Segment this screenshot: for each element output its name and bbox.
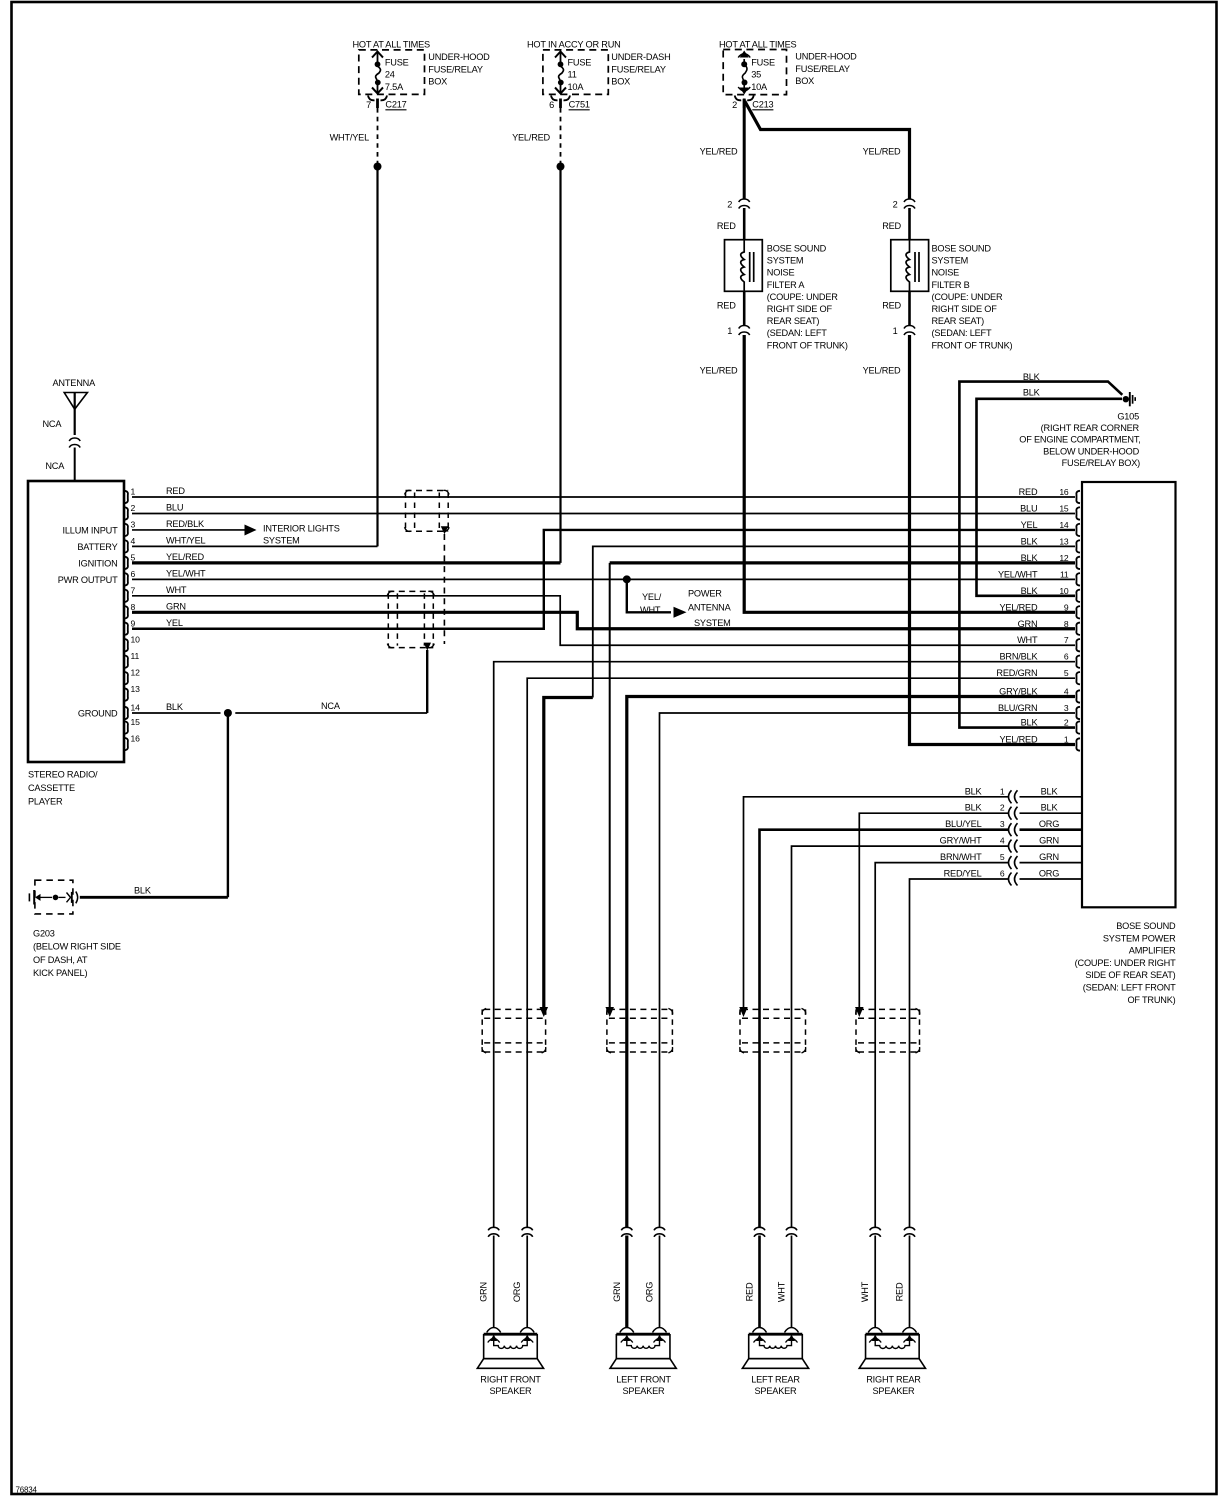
svg-text:RED: RED: [717, 301, 736, 311]
svg-text:ANTENNA: ANTENNA: [53, 378, 97, 388]
svg-text:2: 2: [727, 200, 732, 210]
svg-text:WHT: WHT: [166, 585, 187, 595]
svg-text:10A: 10A: [568, 82, 585, 92]
svg-text:INTERIOR LIGHTS: INTERIOR LIGHTS: [263, 523, 340, 533]
svg-text:YEL/RED: YEL/RED: [512, 133, 550, 143]
arrow BLK wire into connector C5: [739, 1007, 748, 1017]
label stereo radio/cassette player: [28, 770, 98, 807]
svg-text:GRN: GRN: [1039, 852, 1059, 862]
svg-text:WHT: WHT: [640, 605, 661, 615]
wire WHT/YEL radio pin 4 to fuse F1 drop: [132, 545, 378, 547]
wire BLK amp pin 10 to G105: [977, 399, 1123, 596]
wire BLK amp pin 2 to G105: [959, 382, 1122, 728]
amp speaker connector pins 1-6 with labels: [940, 786, 1082, 885]
wire YEL/WHT radio pin 6 to amp pin 11: [132, 578, 1075, 580]
wire YEL radio pin 9 to amp pin 14: [132, 530, 1075, 629]
svg-text:9: 9: [1064, 602, 1069, 612]
svg-text:3: 3: [1000, 819, 1005, 829]
right front speaker: [477, 1328, 543, 1397]
svg-text:SPEAKER: SPEAKER: [754, 1386, 797, 1396]
svg-text:CASSETTE: CASSETTE: [28, 783, 75, 793]
svg-text:FUSE: FUSE: [568, 58, 592, 68]
svg-text:OF TRUNK): OF TRUNK): [1127, 995, 1175, 1005]
svg-text:BLK: BLK: [965, 803, 983, 813]
svg-text:FUSE/RELAY: FUSE/RELAY: [611, 65, 666, 75]
svg-text:BLU/YEL: BLU/YEL: [945, 819, 981, 829]
svg-text:BLK: BLK: [1021, 553, 1039, 563]
label G105 location: [1019, 412, 1140, 468]
svg-text:SPEAKER: SPEAKER: [872, 1386, 915, 1396]
svg-text:FUSE/RELAY: FUSE/RELAY: [795, 64, 850, 74]
svg-text:GRN: GRN: [612, 1282, 622, 1302]
wire BRN/BLK amp pin 6 to right front speaker: [494, 662, 1075, 1328]
svg-text:HOT IN ACCY OR RUN: HOT IN ACCY OR RUN: [527, 40, 621, 50]
wire BLK amp pin 13 to connector C3: [593, 546, 1075, 697]
svg-text:WHT: WHT: [860, 1281, 870, 1302]
svg-text:10A: 10A: [751, 82, 768, 92]
arrow BLK wire into connector C6: [855, 1007, 864, 1017]
junction dot ground splice: [224, 709, 232, 717]
svg-text:2: 2: [732, 100, 737, 110]
svg-text:(BELOW RIGHT SIDE: (BELOW RIGHT SIDE: [33, 942, 121, 952]
svg-text:UNDER-DASH: UNDER-DASH: [611, 52, 670, 62]
label Bose sound system power amplifier: [1075, 921, 1176, 1005]
label under-hood fuse/relay box 3: [795, 52, 857, 87]
svg-text:ORG: ORG: [1039, 869, 1059, 879]
svg-text:2: 2: [1000, 803, 1005, 813]
svg-text:SPEAKER: SPEAKER: [622, 1386, 665, 1396]
svg-text:(SEDAN: LEFT: (SEDAN: LEFT: [932, 328, 992, 338]
svg-text:9: 9: [131, 618, 136, 628]
svg-text:SYSTEM POWER: SYSTEM POWER: [1103, 933, 1176, 943]
dashed link connector C1 to connector C2: [443, 534, 445, 644]
ground G105: [1123, 392, 1136, 406]
svg-text:1: 1: [131, 487, 136, 497]
svg-text:FILTER A: FILTER A: [767, 280, 806, 290]
speaker wire colour labels: [479, 1281, 905, 1302]
svg-text:GRN: GRN: [479, 1282, 489, 1302]
svg-text:FRONT OF TRUNK): FRONT OF TRUNK): [932, 340, 1013, 350]
svg-text:RED: RED: [882, 301, 901, 311]
wire YEL/RED fuse F3 branch to noise filter B: [745, 101, 910, 200]
noise filter B (Bose sound system noise filter B): [882, 199, 1012, 350]
svg-text:GRN: GRN: [1039, 836, 1059, 846]
svg-text:NOISE: NOISE: [932, 268, 960, 278]
svg-text:BATTERY: BATTERY: [77, 542, 117, 552]
svg-text:2: 2: [131, 503, 136, 513]
svg-text:SIDE OF REAR SEAT): SIDE OF REAR SEAT): [1085, 970, 1175, 980]
fuse F2 11 10A (C751 under-dash fuse/relay box): [527, 40, 621, 95]
svg-text:12: 12: [1059, 553, 1069, 563]
svg-text:BLK: BLK: [1021, 586, 1039, 596]
arrow BLK wire into connector C4: [605, 1007, 614, 1017]
wire GRY/BLK amp pin 4 to left front speaker: [627, 697, 1075, 1328]
svg-text:2: 2: [893, 200, 898, 210]
svg-text:BLU/GRN: BLU/GRN: [998, 703, 1037, 713]
svg-text:G105: G105: [1117, 412, 1139, 422]
svg-text:YEL/: YEL/: [642, 592, 662, 602]
svg-text:15: 15: [1059, 503, 1069, 513]
svg-text:BLK: BLK: [134, 886, 152, 896]
svg-text:BLK: BLK: [1041, 803, 1059, 813]
svg-text:FUSE: FUSE: [385, 58, 409, 68]
wire BLU/GRN amp pin 3 to left front speaker: [660, 713, 1076, 1328]
svg-text:REAR SEAT): REAR SEAT): [932, 316, 985, 326]
right rear speaker: [859, 1328, 925, 1397]
svg-text:13: 13: [1059, 536, 1069, 546]
svg-text:16: 16: [131, 734, 141, 744]
svg-text:12: 12: [131, 668, 141, 678]
svg-text:6: 6: [1000, 869, 1005, 879]
svg-text:YEL/RED: YEL/RED: [700, 147, 738, 157]
svg-text:(COUPE: UNDER: (COUPE: UNDER: [767, 292, 838, 302]
svg-text:1: 1: [727, 326, 732, 336]
svg-text:YEL/RED: YEL/RED: [863, 366, 901, 376]
svg-text:RIGHT REAR: RIGHT REAR: [866, 1375, 921, 1385]
svg-text:NCA: NCA: [45, 461, 65, 471]
svg-text:6: 6: [1064, 652, 1069, 662]
svg-text:WHT/YEL: WHT/YEL: [166, 535, 206, 545]
svg-text:PWR OUTPUT: PWR OUTPUT: [58, 575, 118, 585]
svg-text:5: 5: [1064, 668, 1069, 678]
antenna: [53, 378, 97, 481]
svg-text:4: 4: [131, 536, 136, 546]
svg-text:ORG: ORG: [1039, 819, 1059, 829]
wire NCA splice to connector C2: [235, 712, 427, 714]
connector C751 pin 6: [549, 96, 590, 111]
wire WHT/YEL fuse F1 to radio pin 4: [374, 108, 382, 546]
wire GRN amp speaker pin 4 to left rear speaker: [792, 846, 1009, 1328]
svg-text:5: 5: [131, 552, 136, 562]
radio connector pins 1-16: [124, 487, 140, 751]
svg-text:ANTENNA: ANTENNA: [688, 603, 732, 613]
svg-text:BLK: BLK: [965, 786, 983, 796]
wire ORG amp speaker pin 3 to left rear speaker: [760, 830, 1009, 1328]
in-line connector C6 right rear speaker wires: [856, 1008, 920, 1053]
in-line connector C5 left rear speaker wires: [740, 1008, 806, 1053]
radio pin function labels: [58, 525, 118, 718]
wire YEL/WHT branch to power antenna system: [627, 579, 671, 612]
svg-text:(COUPE: UNDER: (COUPE: UNDER: [932, 292, 1003, 302]
in-line connectors on speaker wires: [488, 1227, 916, 1237]
wire RED radio pin 1 to amp pin 16: [132, 496, 1075, 498]
svg-text:REAR SEAT): REAR SEAT): [767, 316, 820, 326]
svg-text:LEFT FRONT: LEFT FRONT: [616, 1375, 671, 1385]
svg-text:RED: RED: [1019, 487, 1038, 497]
svg-text:C751: C751: [569, 100, 590, 110]
svg-text:YEL: YEL: [1021, 520, 1038, 530]
wire RED/GRN amp pin 5 to right front speaker: [527, 678, 1075, 1328]
svg-text:BOX: BOX: [795, 76, 814, 86]
stereo radio/cassette player box: [28, 481, 124, 762]
svg-text:10: 10: [1059, 586, 1069, 596]
svg-text:RED: RED: [895, 1282, 905, 1301]
svg-text:C213: C213: [752, 100, 773, 110]
svg-text:KICK PANEL): KICK PANEL): [33, 968, 87, 978]
svg-text:YEL/RED: YEL/RED: [863, 147, 901, 157]
svg-text:FUSE/RELAY: FUSE/RELAY: [428, 65, 483, 75]
svg-text:RED/YEL: RED/YEL: [944, 869, 982, 879]
svg-text:1: 1: [1064, 735, 1069, 745]
svg-text:BLU: BLU: [1020, 503, 1037, 513]
svg-text:YEL: YEL: [166, 618, 183, 628]
ground G203: [29, 880, 77, 914]
svg-text:LEFT REAR: LEFT REAR: [751, 1375, 800, 1385]
wire BLK G203 to radio ground splice: [80, 896, 228, 899]
svg-text:2: 2: [1064, 718, 1069, 728]
svg-text:BLK: BLK: [1021, 718, 1039, 728]
wire WHT radio pin 7 to amp pin 7: [132, 596, 1075, 645]
svg-text:7: 7: [131, 585, 136, 595]
svg-text:YEL/RED: YEL/RED: [166, 552, 204, 562]
svg-text:BOX: BOX: [428, 77, 447, 87]
svg-text:GRN: GRN: [166, 601, 186, 611]
svg-text:ORG: ORG: [512, 1282, 522, 1302]
svg-text:SYSTEM: SYSTEM: [767, 256, 804, 266]
wire RED/BLK radio pin 3 to interior lights system: [132, 529, 245, 531]
svg-text:5: 5: [1000, 852, 1005, 862]
wire BLK amp speaker pin 2 to connector C6: [859, 813, 1008, 1007]
svg-text:RIGHT SIDE OF: RIGHT SIDE OF: [932, 304, 998, 314]
svg-text:24: 24: [385, 70, 395, 80]
in-line connector C2 on WHT/GRN/YEL wires: [387, 591, 434, 650]
svg-text:RED/BLK: RED/BLK: [166, 519, 205, 529]
svg-text:STEREO RADIO/: STEREO RADIO/: [28, 770, 98, 780]
svg-text:RIGHT FRONT: RIGHT FRONT: [480, 1375, 541, 1385]
left front speaker: [610, 1328, 676, 1397]
svg-text:8: 8: [131, 602, 136, 612]
wire BLU radio pin 2 to amp pin 15: [132, 512, 1075, 514]
wire YEL/RED fuse F2 to radio pin 5: [557, 108, 565, 563]
svg-text:RED: RED: [166, 486, 185, 496]
svg-text:BRN/WHT: BRN/WHT: [940, 852, 982, 862]
label interior lights system: [263, 523, 340, 545]
svg-text:UNDER-HOOD: UNDER-HOOD: [795, 52, 857, 62]
svg-text:BRN/BLK: BRN/BLK: [999, 652, 1038, 662]
fuse F1 24 7.5A (C217 under-hood fuse/relay box): [353, 40, 431, 95]
label G203 location: [33, 929, 121, 979]
svg-text:14: 14: [131, 703, 141, 713]
svg-text:RED: RED: [745, 1282, 755, 1301]
wire YEL/RED filter B to amp pin 1: [910, 335, 1076, 745]
svg-text:WHT: WHT: [1017, 635, 1038, 645]
wire GRN amp speaker pin 5 to right rear speaker: [875, 863, 1008, 1328]
svg-text:BLK: BLK: [1023, 372, 1041, 382]
svg-text:RED: RED: [882, 221, 901, 231]
connector C213 pin 2: [732, 96, 773, 111]
svg-text:GROUND: GROUND: [78, 709, 118, 719]
svg-text:NCA: NCA: [321, 701, 341, 711]
svg-text:BOSE SOUND: BOSE SOUND: [767, 244, 827, 254]
svg-text:C217: C217: [385, 100, 406, 110]
label power antenna system: [688, 589, 732, 629]
svg-text:NOISE: NOISE: [767, 268, 795, 278]
svg-text:1: 1: [893, 326, 898, 336]
svg-text:11: 11: [568, 70, 577, 80]
svg-text:G203: G203: [33, 929, 55, 939]
svg-text:FRONT OF TRUNK): FRONT OF TRUNK): [767, 340, 848, 350]
in-line connector C3 right front speaker wires: [482, 1008, 546, 1053]
connector C217 pin 7: [366, 96, 407, 111]
arrow to interior lights system: [245, 524, 257, 535]
svg-text:1: 1: [1000, 786, 1005, 796]
svg-text:YEL/RED: YEL/RED: [999, 735, 1037, 745]
svg-text:8: 8: [1064, 619, 1069, 629]
in-line connector C4 left front speaker wires: [607, 1008, 673, 1053]
svg-text:BLK: BLK: [1021, 536, 1039, 546]
svg-text:10: 10: [131, 635, 141, 645]
svg-text:ILLUM INPUT: ILLUM INPUT: [63, 525, 119, 535]
wire YEL/RED filter A to amp pin 9: [744, 335, 1075, 612]
svg-text:11: 11: [131, 651, 140, 661]
label under-dash fuse/relay box: [611, 52, 670, 87]
svg-text:OF ENGINE COMPARTMENT,: OF ENGINE COMPARTMENT,: [1019, 435, 1140, 445]
svg-text:BLK: BLK: [1041, 786, 1059, 796]
svg-text:NCA: NCA: [42, 419, 62, 429]
svg-text:SYSTEM: SYSTEM: [932, 256, 969, 266]
svg-text:6: 6: [549, 100, 554, 110]
fuse F3 35 10A (C213 under-hood fuse/relay box): [719, 40, 797, 95]
svg-text:FILTER B: FILTER B: [932, 280, 970, 290]
svg-text:RIGHT SIDE OF: RIGHT SIDE OF: [767, 304, 833, 314]
arrow BLK wire into connector C3: [540, 1007, 549, 1017]
svg-text:YEL/WHT: YEL/WHT: [166, 568, 206, 578]
svg-text:13: 13: [131, 684, 141, 694]
svg-text:(RIGHT REAR CORNER: (RIGHT REAR CORNER: [1041, 423, 1140, 433]
svg-text:YEL/RED: YEL/RED: [700, 366, 738, 376]
svg-text:BLU: BLU: [166, 502, 183, 512]
wire connector C2 to ground splice: [426, 650, 428, 713]
svg-text:FUSE: FUSE: [751, 58, 775, 68]
svg-text:7.5A: 7.5A: [385, 82, 404, 92]
arrow to power antenna system: [674, 607, 687, 618]
svg-text:(SEDAN: LEFT: (SEDAN: LEFT: [767, 328, 827, 338]
Bose sound system power amplifier box: [1082, 482, 1176, 907]
wire BLK splice to G203: [227, 716, 229, 897]
svg-text:(COUPE: UNDER RIGHT: (COUPE: UNDER RIGHT: [1075, 958, 1176, 968]
svg-text:YEL/WHT: YEL/WHT: [998, 569, 1038, 579]
junction dot power antenna branch: [623, 575, 631, 583]
svg-text:76834: 76834: [16, 1486, 38, 1495]
svg-text:35: 35: [751, 70, 761, 80]
svg-text:BOSE SOUND: BOSE SOUND: [932, 244, 992, 254]
wire YEL/RED radio pin 5 to fuse F2 drop: [132, 561, 561, 564]
svg-text:YEL/RED: YEL/RED: [999, 602, 1037, 612]
svg-text:RED/GRN: RED/GRN: [996, 668, 1037, 678]
noise filter A (Bose sound system noise filter A): [717, 199, 848, 350]
svg-text:BELOW UNDER-HOOD: BELOW UNDER-HOOD: [1043, 446, 1139, 456]
svg-text:SPEAKER: SPEAKER: [489, 1386, 532, 1396]
svg-text:BOSE SOUND: BOSE SOUND: [1116, 921, 1176, 931]
label under-hood fuse/relay box 1: [428, 52, 490, 87]
svg-text:6: 6: [131, 569, 136, 579]
svg-text:IGNITION: IGNITION: [78, 558, 117, 568]
svg-text:BLK: BLK: [166, 702, 184, 712]
svg-text:GRY/WHT: GRY/WHT: [940, 836, 982, 846]
in-line connector C1 on RED/BLU wires: [405, 490, 450, 534]
svg-text:GRN: GRN: [1018, 619, 1038, 629]
wire ORG amp speaker pin 6 to right rear speaker: [910, 879, 1009, 1328]
svg-text:FUSE/RELAY BOX): FUSE/RELAY BOX): [1062, 458, 1140, 468]
svg-text:4: 4: [1000, 836, 1005, 846]
svg-text:OF DASH, AT: OF DASH, AT: [33, 955, 88, 965]
svg-text:POWER: POWER: [688, 589, 722, 599]
wire GRN radio pin 8 to amp pin 8: [132, 612, 1075, 628]
svg-text:RED: RED: [717, 221, 736, 231]
svg-text:UNDER-HOOD: UNDER-HOOD: [428, 52, 490, 62]
svg-text:WHT/YEL: WHT/YEL: [330, 133, 370, 143]
svg-text:3: 3: [1064, 703, 1069, 713]
svg-text:BLK: BLK: [1023, 388, 1041, 398]
svg-text:(SEDAN: LEFT FRONT: (SEDAN: LEFT FRONT: [1083, 983, 1176, 993]
wire BLK amp speaker pin 1 to connector C5: [744, 797, 1009, 1007]
svg-text:14: 14: [1059, 520, 1069, 530]
svg-text:11: 11: [1060, 569, 1069, 579]
svg-text:7: 7: [1064, 635, 1069, 645]
svg-text:ORG: ORG: [645, 1282, 655, 1302]
svg-text:BOX: BOX: [611, 77, 630, 87]
svg-text:AMPLIFIER: AMPLIFIER: [1129, 946, 1176, 956]
svg-text:3: 3: [131, 519, 136, 529]
svg-text:HOT AT ALL TIMES: HOT AT ALL TIMES: [719, 40, 797, 50]
wire BLK radio pin 14 ground: [132, 712, 221, 714]
svg-text:15: 15: [131, 717, 141, 727]
svg-text:SYSTEM: SYSTEM: [263, 536, 300, 546]
svg-text:PLAYER: PLAYER: [28, 797, 63, 807]
svg-text:SYSTEM: SYSTEM: [694, 618, 731, 628]
amp connector pins 16-1 with wire labels: [996, 487, 1080, 751]
svg-text:7: 7: [366, 100, 371, 110]
wire YEL/RED fuse F3 to noise filter A: [743, 99, 746, 200]
svg-text:HOT AT ALL TIMES: HOT AT ALL TIMES: [353, 40, 431, 50]
wire BLK amp pin 12 to connector C4: [610, 561, 1075, 564]
svg-text:16: 16: [1059, 487, 1069, 497]
left rear speaker: [742, 1328, 808, 1397]
label YEL/WHT branch: [640, 592, 662, 615]
svg-text:WHT: WHT: [777, 1281, 787, 1302]
